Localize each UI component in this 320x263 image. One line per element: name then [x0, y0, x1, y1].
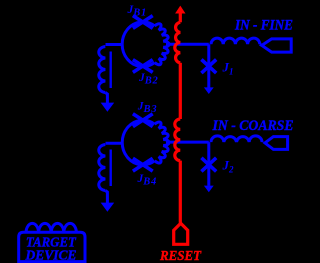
svg-text:J2: J2	[222, 158, 235, 175]
svg-text:IN - FINE: IN - FINE	[234, 17, 293, 33]
svg-text:JB2: JB2	[138, 72, 159, 87]
svg-text:IN - COARSE: IN - COARSE	[212, 118, 294, 134]
svg-text:JB3: JB3	[137, 100, 158, 115]
svg-text:JB4: JB4	[137, 173, 158, 188]
svg-text:JB1: JB1	[127, 4, 148, 19]
svg-text:DEVICE: DEVICE	[25, 249, 77, 263]
svg-text:J1: J1	[222, 60, 234, 77]
svg-text:RESET: RESET	[159, 248, 202, 263]
